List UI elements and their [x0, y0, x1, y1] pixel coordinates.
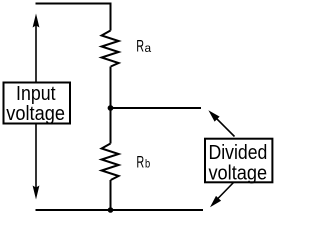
- label: Divided voltage: [208, 142, 267, 185]
- node junction: tap between Ra and Rb: [108, 105, 114, 111]
- resistor Rb: [102, 144, 119, 181]
- wire: main vertical middle (Ra to Rb through tap node): [110, 67, 112, 144]
- wire: main vertical upper (top rail to Ra): [110, 3, 112, 31]
- divided voltage box: [205, 139, 272, 183]
- wire: middle horizontal (tap node to divided-voltage arrow): [111, 107, 202, 109]
- svg-text:R: R: [136, 153, 144, 171]
- wire: top horizontal: [36, 3, 111, 5]
- wire: bottom horizontal: [36, 209, 204, 211]
- arrow: divided voltage to middle tap wire: [208, 110, 234, 136]
- svg-text:voltage: voltage: [6, 103, 65, 125]
- resistor Ra: [102, 31, 119, 67]
- wire: main vertical lower (Rb to bottom rail): [110, 180, 112, 210]
- svg-text:b: b: [145, 157, 150, 171]
- svg-text:Divided: Divided: [208, 142, 267, 164]
- arrow: divided voltage to bottom rail: [210, 182, 234, 207]
- svg-text:R: R: [136, 37, 144, 55]
- input voltage box: [4, 83, 71, 124]
- svg-text:a: a: [145, 41, 152, 55]
- input voltage double-headed arrow: [33, 14, 40, 200]
- node junction: bottom rail: [108, 207, 114, 213]
- svg-text:Input: Input: [16, 83, 56, 105]
- label Ra: [136, 37, 151, 55]
- label: Input voltage: [6, 83, 65, 125]
- svg-text:voltage: voltage: [208, 163, 267, 185]
- label Rb: [136, 153, 150, 171]
